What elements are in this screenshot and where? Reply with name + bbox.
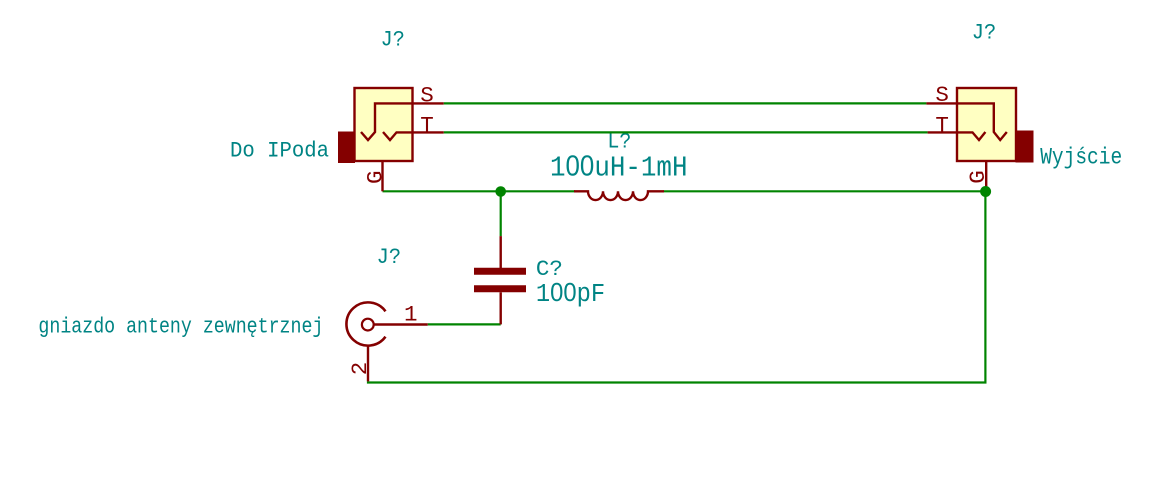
svg-text:100uH-1mH: 100uH-1mH bbox=[550, 151, 688, 185]
svg-text:Do IPoda: Do IPoda bbox=[230, 137, 329, 163]
svg-text:T: T bbox=[420, 112, 434, 138]
svg-text:J?: J? bbox=[377, 244, 402, 270]
svg-text:Wyjście: Wyjście bbox=[1040, 144, 1122, 170]
svg-text:T: T bbox=[935, 113, 949, 139]
svg-text:J?: J? bbox=[381, 27, 405, 53]
svg-text:J?: J? bbox=[972, 20, 997, 46]
svg-text:100pF: 100pF bbox=[536, 279, 605, 309]
svg-text:G: G bbox=[362, 170, 388, 184]
svg-text:gniazdo anteny zewnętrznej: gniazdo anteny zewnętrznej bbox=[38, 314, 323, 340]
svg-text:C?: C? bbox=[536, 256, 563, 282]
